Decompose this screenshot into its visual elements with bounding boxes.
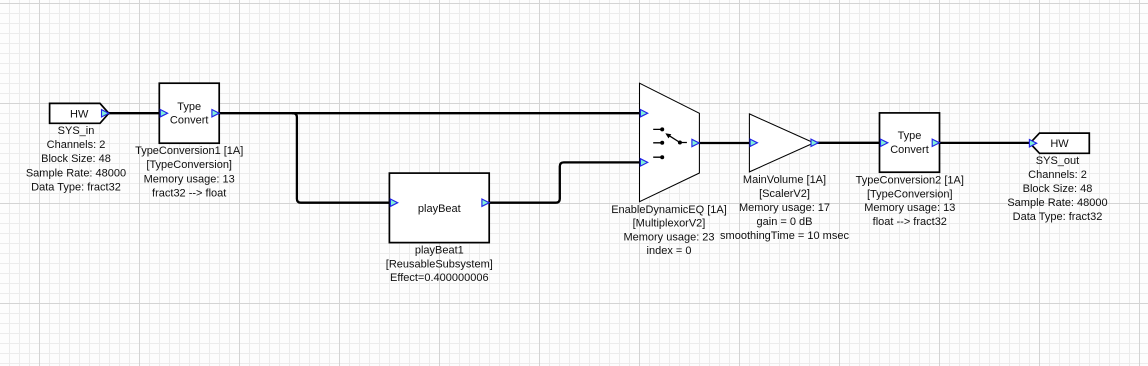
label playBeat1 properties (386, 245, 493, 285)
svg-text:Data Type: fract32: Data Type: fract32 (31, 182, 121, 194)
pin TypeConversion2 input (881, 139, 888, 146)
switch selector arm (665, 133, 680, 142)
svg-text:SYS_in: SYS_in (58, 125, 95, 137)
wire playBeat1 output to EnableDynamicEQ input 2 (489, 162, 639, 202)
label SYS_in properties (26, 125, 126, 194)
pin EnableDynamicEQ output (692, 139, 699, 146)
block TypeConversion2 (856, 113, 964, 228)
svg-text:[TypeConversion]: [TypeConversion] (867, 188, 953, 200)
svg-text:Sample Rate: 48000: Sample Rate: 48000 (26, 167, 126, 179)
svg-text:TypeConversion2 [1A]: TypeConversion2 [1A] (856, 175, 964, 187)
pin EnableDynamicEQ input 2 (640, 159, 647, 166)
svg-text:smoothingTime = 10 msec: smoothingTime = 10 msec (720, 230, 849, 242)
label EnableDynamicEQ properties (611, 204, 727, 257)
svg-text:Block Size: 48: Block Size: 48 (41, 153, 111, 165)
node SYS_in (HW input) (26, 103, 126, 193)
block TypeConversion1 (135, 83, 243, 199)
svg-text:[ScalerV2]: [ScalerV2] (759, 188, 810, 200)
wire SYS_in to TypeConversion1 (109, 112, 160, 114)
pin MainVolume input (750, 139, 757, 146)
pin TypeConversion1 output (212, 110, 219, 117)
svg-text:TypeConversion1 [1A]: TypeConversion1 [1A] (135, 145, 243, 157)
svg-text:playBeat1: playBeat1 (415, 245, 464, 257)
label SYS_out properties (1007, 155, 1107, 223)
svg-text:Memory usage: 17: Memory usage: 17 (739, 202, 830, 214)
pin EnableDynamicEQ input 1 (640, 110, 647, 117)
svg-text:Convert: Convert (890, 144, 929, 156)
svg-text:index = 0: index = 0 (647, 245, 692, 257)
wire branch junction to playBeat1 input (292, 113, 390, 203)
block playBeat1 (ReusableSubsystem) (386, 173, 493, 284)
scaler MainVolume (amplifier triangle) (720, 114, 849, 242)
pin playBeat1 input (390, 199, 397, 206)
svg-text:MainVolume [1A]: MainVolume [1A] (743, 174, 826, 186)
pin SYS_out input (1029, 140, 1036, 147)
label MainVolume properties (720, 174, 849, 242)
pin SYS_in output (102, 110, 109, 117)
pin playBeat1 output (482, 199, 489, 206)
multiplexor EnableDynamicEQ U1 (611, 83, 727, 257)
wire TypeConversion1 to EnableDynamicEQ input 1 (219, 112, 640, 114)
svg-text:Data Type: fract32: Data Type: fract32 (1013, 211, 1103, 223)
svg-text:fract32 --> float: fract32 --> float (152, 188, 226, 200)
svg-text:Block Size: 48: Block Size: 48 (1023, 183, 1093, 195)
svg-text:Convert: Convert (170, 115, 209, 127)
svg-text:Memory usage: 23: Memory usage: 23 (623, 231, 714, 243)
svg-text:EnableDynamicEQ [1A]: EnableDynamicEQ [1A] (611, 204, 727, 216)
svg-text:Type: Type (177, 101, 201, 113)
svg-text:playBeat: playBeat (418, 203, 461, 215)
svg-text:Memory usage: 13: Memory usage: 13 (864, 202, 955, 214)
svg-text:[TypeConversion]: [TypeConversion] (146, 159, 232, 171)
pin TypeConversion1 input (160, 110, 167, 117)
label Type Convert (890, 130, 929, 156)
svg-text:HW: HW (70, 108, 89, 120)
svg-text:Type: Type (898, 130, 922, 142)
svg-text:[MultiplexorV2]: [MultiplexorV2] (633, 218, 706, 230)
switch contacts (653, 127, 687, 159)
pin MainVolume output (811, 139, 818, 146)
svg-text:Memory usage: 13: Memory usage: 13 (144, 173, 235, 185)
svg-text:Channels: 2: Channels: 2 (47, 139, 106, 151)
svg-text:SYS_out: SYS_out (1036, 155, 1079, 167)
pin TypeConversion2 output (932, 139, 939, 146)
label TypeConversion1 properties (135, 145, 243, 200)
svg-text:[ReusableSubsystem]: [ReusableSubsystem] (386, 258, 493, 270)
svg-text:float --> fract32: float --> fract32 (873, 216, 947, 228)
svg-text:Channels: 2: Channels: 2 (1028, 169, 1087, 181)
svg-text:gain = 0 dB: gain = 0 dB (757, 216, 813, 228)
label Type Convert (170, 101, 209, 127)
node SYS_out (HW output) (1007, 133, 1107, 223)
wire EnableDynamicEQ output to MainVolume (699, 142, 749, 144)
wire TypeConversion2 to SYS_out (940, 142, 1030, 144)
svg-text:Sample Rate: 48000: Sample Rate: 48000 (1007, 197, 1107, 209)
wire MainVolume to TypeConversion2 (817, 142, 880, 144)
svg-text:HW: HW (1050, 138, 1069, 150)
svg-text:Effect=0.400000006: Effect=0.400000006 (390, 272, 489, 284)
label TypeConversion2 properties (856, 175, 964, 228)
